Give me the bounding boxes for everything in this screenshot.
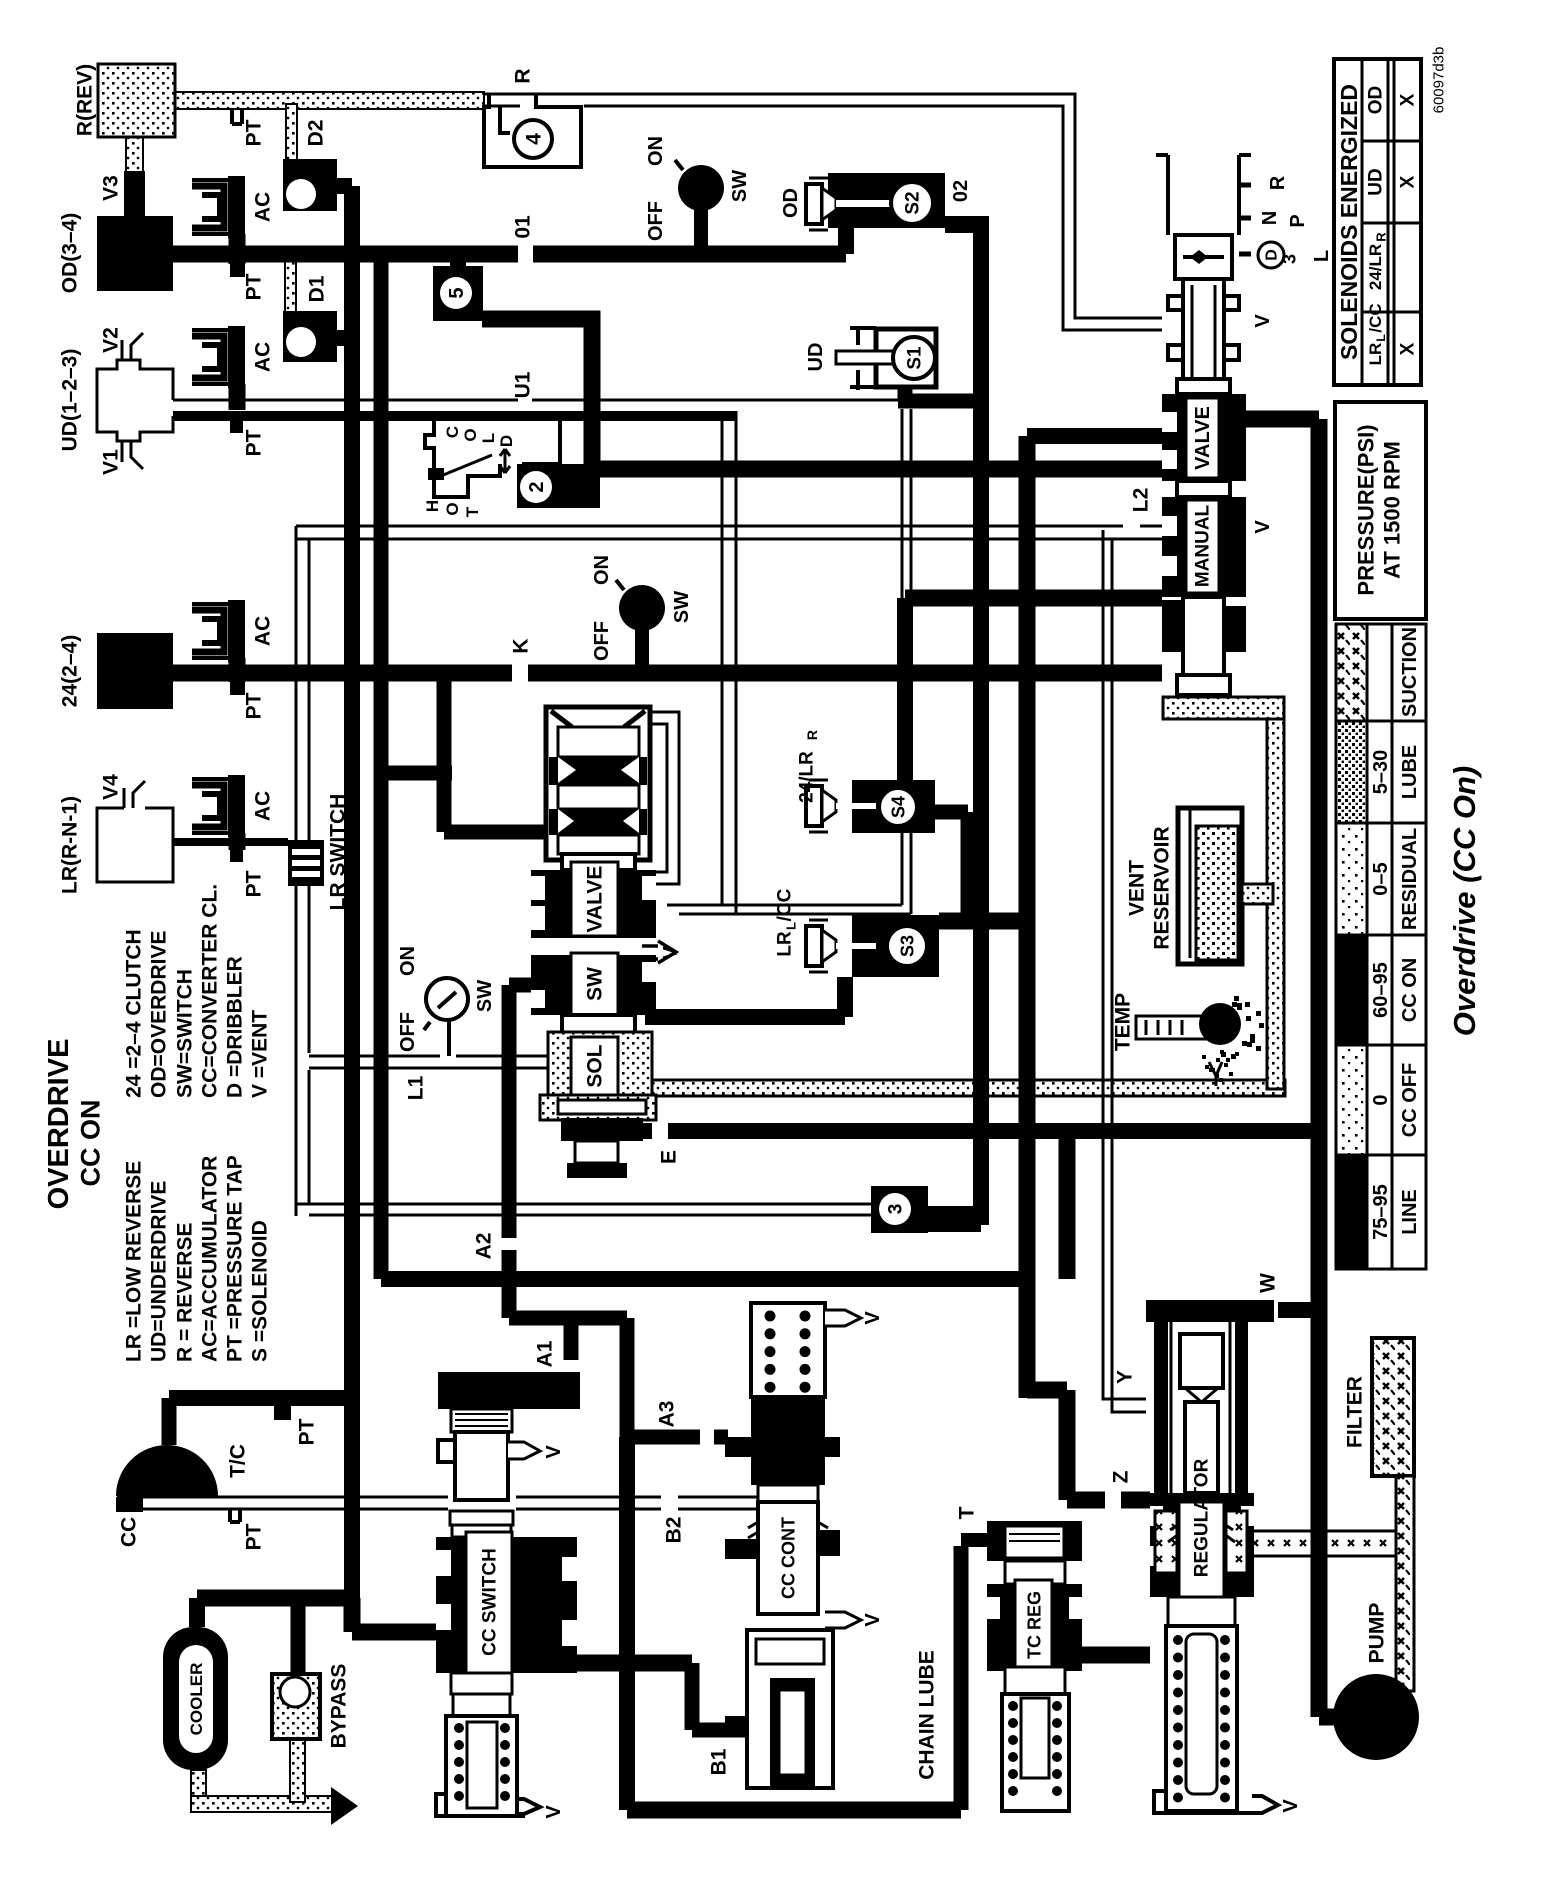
- svg-text:3: 3: [1279, 254, 1299, 264]
- wire CC switch stem: [635, 630, 649, 673]
- svg-text:SW: SW: [583, 967, 606, 1001]
- legend row CC OFF: [1336, 1045, 1367, 1155]
- wire TC REG to regulator line: [1082, 1647, 1150, 1664]
- pressure tap PT (T/C line): [274, 1406, 291, 1420]
- wire E line: [640, 1123, 1319, 1139]
- wire manual valve suction tray: [1163, 697, 1284, 719]
- wire hot/cold output line to manual valve: [600, 461, 1162, 478]
- wire regulator suction crosshatch pipe: [1232, 1531, 1405, 1556]
- wire OD switch stem: [694, 210, 708, 254]
- svg-text:U1: U1: [511, 371, 534, 398]
- svg-text:T: T: [463, 506, 482, 517]
- svg-text:CC=CONVERTER CL.: CC=CONVERTER CL.: [198, 884, 221, 1098]
- switch SW (L1, open): [447, 1020, 451, 1056]
- pressure tap PT (OD line): [230, 263, 245, 277]
- wire L1/valve3 riser (double thin): [296, 884, 309, 1216]
- wire Z line to regulator: [1027, 1390, 1150, 1500]
- svg-text:FILTER: FILTER: [1343, 1376, 1366, 1448]
- svg-text:UD: UD: [1366, 168, 1387, 195]
- reservoir outlet stem: [1242, 884, 1273, 904]
- wire LR switch riser (double thin): [296, 526, 309, 844]
- pressure tap PT (R line): [232, 109, 242, 124]
- wire L1 line (double thin): [309, 1056, 552, 1068]
- svg-text:R(REV): R(REV): [73, 64, 96, 136]
- pressure tap PT (CC line): [230, 1510, 240, 1522]
- svg-text:OD=OVERDRIVE: OD=OVERDRIVE: [147, 931, 170, 1098]
- clutch LR(R-N-1): [97, 808, 173, 882]
- svg-text:AC: AC: [251, 342, 274, 372]
- svg-text:SW: SW: [474, 980, 496, 1012]
- svg-text:A2: A2: [472, 1233, 495, 1260]
- filter: [1372, 1338, 1414, 1476]
- svg-text:L: L: [479, 433, 498, 443]
- svg-text:UD(1–2–3): UD(1–2–3): [58, 349, 81, 452]
- wire B trunk cross line: [381, 1271, 1027, 1287]
- wire trunk B: [374, 260, 389, 1279]
- svg-text:24 =2–4 CLUTCH: 24 =2–4 CLUTCH: [122, 929, 145, 1098]
- wire U1 line: [173, 399, 899, 402]
- svg-text:LINE: LINE: [1399, 1189, 1421, 1235]
- wire bypass riser: [291, 1606, 306, 1674]
- wire Y line (double thin riser): [1103, 530, 1146, 1399]
- drain arrow: [331, 1787, 358, 1825]
- wire pump to trunk elbow: [1319, 1709, 1345, 1726]
- svg-text:N: N: [1259, 211, 1281, 225]
- wire LR line to LR switch: [173, 838, 288, 846]
- svg-text:V1: V1: [99, 449, 122, 475]
- accumulator AC (OD line): [192, 176, 245, 238]
- svg-text:01: 01: [511, 215, 534, 239]
- valve CC SWITCH: [436, 1372, 580, 1819]
- wire valve top loop (thin): [640, 712, 679, 884]
- svg-text:3: 3: [886, 1204, 907, 1215]
- svg-text:CC OFF: CC OFF: [1399, 1063, 1421, 1137]
- thermometer TEMP: [1136, 1016, 1207, 1039]
- svg-text:ON: ON: [397, 946, 419, 976]
- vent V2: [122, 333, 143, 360]
- svg-text:AC=ACCUMULATOR: AC=ACCUMULATOR: [198, 1156, 221, 1362]
- svg-text:B2: B2: [662, 1517, 685, 1544]
- wire UD to L2 drop (double thin): [722, 411, 736, 914]
- vent V4: [124, 781, 145, 808]
- svg-text:CC CONT: CC CONT: [778, 1517, 798, 1599]
- svg-text:V: V: [1252, 314, 1274, 328]
- wire A2/A1 line: [509, 985, 571, 1390]
- check valve 2: [517, 464, 600, 508]
- svg-text:5–30: 5–30: [1370, 750, 1392, 795]
- dribbler D1: [283, 311, 337, 362]
- CC line left cap: [116, 1497, 143, 1512]
- pump: [1333, 1674, 1419, 1760]
- clutch 24(2-4): [97, 633, 173, 709]
- wire S3/S4 junction line: [939, 913, 1027, 930]
- svg-text:TEMP: TEMP: [1111, 993, 1134, 1051]
- svg-text:PRESSURE(PSI): PRESSURE(PSI): [1354, 424, 1379, 595]
- svg-text:Z: Z: [1109, 1470, 1132, 1483]
- svg-text:Y: Y: [1113, 1370, 1136, 1384]
- svg-text:T: T: [955, 1506, 978, 1519]
- svg-text:LR: LR: [1366, 343, 1385, 366]
- svg-text:/CC: /CC: [1366, 303, 1385, 332]
- svg-text:AC: AC: [251, 192, 274, 222]
- svg-text:D2: D2: [304, 120, 327, 147]
- check valve 5: [433, 266, 483, 321]
- svg-text:ON: ON: [645, 136, 667, 166]
- wire T/C line: [169, 1390, 352, 1406]
- svg-text:X: X: [1398, 342, 1419, 355]
- solenoid S4: [852, 780, 935, 833]
- wire E branch down: [1059, 1131, 1076, 1279]
- LR switch: [288, 840, 324, 886]
- svg-text:UD: UD: [805, 343, 827, 372]
- vent V1: [122, 441, 143, 469]
- legend row SUCTION: [1336, 624, 1367, 721]
- clutch R(REV): [98, 64, 175, 137]
- svg-text:H: H: [423, 500, 442, 512]
- clutch UD(1-2-3): [97, 360, 173, 441]
- svg-text:O: O: [461, 428, 480, 441]
- svg-text:SUCTION: SUCTION: [1399, 627, 1421, 717]
- svg-text:OD: OD: [1366, 86, 1387, 115]
- svg-text:CHAIN LUBE: CHAIN LUBE: [915, 1650, 938, 1780]
- svg-text:PT: PT: [242, 1523, 265, 1550]
- valve solenoid switch valve (SOL SW VALVE): [531, 707, 682, 1178]
- wire B1 line: [692, 1663, 747, 1730]
- wire S2 feed riser: [838, 215, 854, 254]
- wire reservoir right wall dotted: [1267, 717, 1284, 1089]
- svg-text:R: R: [511, 68, 534, 83]
- svg-text:5: 5: [446, 287, 468, 298]
- valve CC CONT with solenoid: [725, 1303, 884, 1788]
- svg-text:V: V: [1280, 1799, 1302, 1813]
- svg-text:0: 0: [1370, 1094, 1392, 1105]
- svg-text:V: V: [660, 946, 682, 960]
- svg-text:24/LR: 24/LR: [797, 751, 818, 803]
- svg-text:L2: L2: [1129, 488, 1152, 513]
- wire K drop to switch valve: [381, 673, 546, 832]
- dribbler D2: [283, 159, 337, 211]
- svg-text:S2: S2: [903, 191, 924, 214]
- wire manual valve to S4 line: [905, 590, 1162, 607]
- svg-text:LUBE: LUBE: [1399, 745, 1421, 799]
- svg-text:PT: PT: [242, 429, 265, 456]
- port V3: [124, 171, 145, 217]
- svg-text:ON: ON: [591, 555, 613, 585]
- svg-text:S1: S1: [905, 346, 926, 370]
- svg-text:V: V: [543, 1445, 565, 1459]
- solenoid S1: [876, 329, 936, 387]
- svg-text:OFF: OFF: [397, 1012, 419, 1052]
- pressure tap PT (UD line): [230, 420, 243, 433]
- svg-text:SOL: SOL: [583, 1044, 606, 1087]
- svg-text:LR: LR: [775, 931, 796, 957]
- svg-text:VENT: VENT: [1125, 860, 1148, 916]
- svg-text:PT: PT: [242, 119, 265, 146]
- table SOLENOIDS ENERGIZED: [1334, 59, 1421, 385]
- svg-text:PT: PT: [295, 1418, 318, 1445]
- svg-text:MANUAL: MANUAL: [1193, 504, 1214, 587]
- svg-text:K: K: [509, 638, 532, 653]
- switch SW (OD toggle): [678, 165, 724, 211]
- svg-text:R = REVERSE: R = REVERSE: [173, 1223, 196, 1362]
- svg-text:S =SOLENOID: S =SOLENOID: [248, 1220, 271, 1362]
- wire main line trunk (pump to manual valve): [1245, 419, 1319, 1717]
- wire to check valve 3 (double thin): [296, 1204, 872, 1215]
- wire TC REG side drop: [954, 1546, 969, 1810]
- wire trunk A (D2 output down): [344, 186, 360, 1598]
- svg-text:R: R: [1267, 175, 1289, 190]
- svg-text:D: D: [1264, 249, 1281, 261]
- svg-text:75–95: 75–95: [1370, 1184, 1392, 1240]
- svg-text:/CC: /CC: [775, 888, 796, 921]
- pressure tap PT (LR line): [230, 846, 243, 862]
- svg-text:P: P: [1287, 214, 1309, 227]
- legend row RESIDUAL: [1336, 823, 1367, 935]
- legend row CC ON: [1336, 935, 1367, 1045]
- vent reservoir cup: [1178, 808, 1242, 964]
- wire D1 output: [337, 330, 352, 346]
- svg-text:L: L: [1374, 334, 1388, 341]
- wire V3 dotted stub: [126, 135, 143, 173]
- svg-text:4: 4: [522, 133, 545, 145]
- svg-text:PT =PRESSURE TAP: PT =PRESSURE TAP: [223, 1155, 246, 1362]
- svg-text:TC REG: TC REG: [1024, 1591, 1044, 1659]
- svg-text:24/LR: 24/LR: [1366, 244, 1385, 290]
- svg-text:60–95: 60–95: [1370, 962, 1392, 1018]
- solenoid S2: [828, 173, 945, 228]
- svg-text:02: 02: [950, 180, 972, 202]
- svg-text:BYPASS: BYPASS: [327, 1664, 350, 1749]
- wire D1 dotted riser: [285, 257, 296, 312]
- wire bypass drain dotted: [290, 1739, 305, 1802]
- svg-text:V2: V2: [99, 327, 122, 353]
- svg-text:A1: A1: [533, 1340, 556, 1367]
- svg-text:V4: V4: [99, 774, 122, 800]
- temp spray dots: [1246, 1016, 1251, 1021]
- svg-text:PT: PT: [242, 273, 265, 300]
- svg-text:Overdrive (CC On): Overdrive (CC On): [1447, 766, 1482, 1036]
- wire A1 drop to bottom line: [619, 1437, 635, 1810]
- wire cooler/bypass feed line: [197, 1598, 446, 1632]
- wire manual valve upper port line: [1027, 428, 1162, 444]
- pressure tap PT (24 line): [230, 681, 245, 695]
- svg-text:V: V: [543, 1805, 565, 1819]
- svg-text:24(2–4): 24(2–4): [58, 635, 81, 707]
- svg-text:LR(R-N-1): LR(R-N-1): [58, 796, 81, 894]
- wire trunk D (S2/S1 down to E line): [973, 218, 989, 1225]
- svg-text:SW: SW: [729, 170, 751, 202]
- svg-text:R: R: [804, 730, 820, 740]
- valve REGULATOR: [1146, 1300, 1302, 1813]
- wire OD clutch main line 01: [173, 246, 846, 263]
- svg-text:OVERDRIVE: OVERDRIVE: [43, 1039, 75, 1210]
- svg-text:LR SWITCH: LR SWITCH: [326, 794, 349, 911]
- svg-text:REGULATOR: REGULATOR: [1192, 1458, 1213, 1577]
- wire D2 dotted riser: [286, 104, 297, 160]
- bypass valve: [272, 1674, 320, 1739]
- manual valve assembly: [1156, 155, 1333, 695]
- svg-text:S4: S4: [888, 796, 908, 818]
- svg-text:X: X: [1398, 93, 1419, 106]
- svg-text:R: R: [1374, 232, 1389, 242]
- wire S1 output: [898, 387, 981, 401]
- wire trunk C (manual valve to Z elbow): [1019, 436, 1036, 1398]
- svg-text:V3: V3: [99, 175, 122, 201]
- clutch OD(3-4): [97, 216, 173, 291]
- svg-text:A3: A3: [655, 1401, 678, 1428]
- valve TC REG: [987, 1521, 1082, 1811]
- svg-text:OD(3–4): OD(3–4): [58, 213, 81, 294]
- solenoid S3: [852, 915, 939, 977]
- svg-text:T/C: T/C: [226, 1444, 249, 1478]
- svg-text:D =DRIBBLER: D =DRIBBLER: [223, 956, 246, 1098]
- svg-text:D1: D1: [305, 275, 328, 302]
- svg-text:VALVE: VALVE: [1192, 406, 1214, 470]
- svg-text:B1: B1: [707, 1748, 730, 1775]
- svg-text:X: X: [1398, 175, 1419, 188]
- svg-text:V: V: [862, 1311, 884, 1325]
- accumulator AC (UD line): [192, 326, 245, 388]
- cooler: [163, 1627, 228, 1770]
- wire suction dotted line from R(REV): [173, 92, 484, 109]
- svg-text:V: V: [1252, 520, 1274, 534]
- svg-text:2: 2: [526, 481, 548, 492]
- wire 24 clutch line K: [173, 665, 1162, 682]
- svg-text:L: L: [784, 922, 799, 930]
- thermal element HOT/COLD: [425, 413, 560, 497]
- wire L2 line (double thin): [296, 525, 1162, 528]
- svg-text:CC ON: CC ON: [75, 1100, 105, 1187]
- wire check valve 3 output: [925, 1206, 981, 1232]
- wire check valve 5 stubs: [450, 262, 466, 268]
- svg-text:PUMP: PUMP: [1365, 1603, 1388, 1664]
- wire CC / B2 line (double thin): [117, 1496, 757, 1499]
- svg-text:SW: SW: [671, 591, 693, 623]
- svg-text:LR =LOW REVERSE: LR =LOW REVERSE: [122, 1161, 145, 1362]
- svg-text:RESIDUAL: RESIDUAL: [1399, 828, 1421, 930]
- wire CC switch output line: [512, 1655, 692, 1672]
- svg-text:OFF: OFF: [591, 621, 613, 661]
- check valve 3: [871, 1186, 928, 1233]
- svg-text:CC ON: CC ON: [1399, 958, 1421, 1022]
- svg-text:60097d3b: 60097d3b: [1430, 47, 1447, 114]
- legend row LINE: [1336, 1155, 1367, 1269]
- accumulator AC (LR line): [192, 775, 245, 837]
- wire reservoir bottom suction line: [640, 1080, 1285, 1096]
- svg-text:L: L: [1311, 250, 1333, 262]
- wire LR/CC line to S3: [645, 977, 845, 1017]
- svg-text:UD=UNDERDRIVE: UD=UNDERDRIVE: [147, 1181, 170, 1362]
- wire T port elbow: [961, 1533, 989, 1547]
- wire R line (double thin): [484, 94, 1162, 318]
- svg-text:SOLENOIDS ENERGIZED: SOLENOIDS ENERGIZED: [1336, 84, 1362, 360]
- svg-text:AT 1500 RPM: AT 1500 RPM: [1380, 441, 1405, 579]
- wire D2 output: [337, 178, 352, 194]
- wire UD clutch line: [173, 411, 737, 421]
- svg-text:OD: OD: [780, 188, 802, 218]
- svg-text:D: D: [497, 435, 516, 447]
- svg-text:RESERVOIR: RESERVOIR: [1150, 826, 1173, 949]
- svg-text:0–5: 0–5: [1370, 862, 1392, 895]
- svg-text:V: V: [862, 1613, 884, 1627]
- svg-text:COOLER: COOLER: [187, 1663, 206, 1736]
- svg-text:W: W: [1256, 1273, 1279, 1293]
- svg-text:L1: L1: [404, 1075, 427, 1100]
- svg-text:S3: S3: [897, 935, 917, 957]
- check valve 4: [484, 94, 581, 167]
- switch SW (CC on K line): [619, 585, 665, 631]
- wire bottom lube line: [627, 1802, 961, 1819]
- svg-text:E: E: [657, 1150, 680, 1164]
- legend row LUBE: [1336, 721, 1367, 823]
- svg-text:PT: PT: [242, 870, 265, 897]
- svg-text:AC: AC: [251, 616, 274, 646]
- svg-text:AC: AC: [251, 791, 274, 821]
- accumulator AC (24 line): [192, 600, 245, 662]
- svg-text:CC: CC: [117, 1517, 140, 1547]
- table PRESSURE(PSI) AT 1500 RPM: [1335, 402, 1426, 619]
- svg-text:VALVE: VALVE: [583, 866, 606, 933]
- svg-text:CC SWITCH: CC SWITCH: [480, 1548, 501, 1656]
- svg-text:OFF: OFF: [645, 201, 667, 241]
- wire S4 output: [935, 812, 968, 921]
- svg-text:PT: PT: [242, 692, 265, 719]
- svg-text:SW=SWITCH: SW=SWITCH: [173, 969, 196, 1098]
- svg-text:V =VENT: V =VENT: [248, 1010, 271, 1098]
- wire cooler drain dotted: [191, 1770, 206, 1804]
- svg-text:C: C: [443, 426, 462, 438]
- wire A3 line: [571, 1318, 728, 1437]
- wire W line: [1255, 1302, 1319, 1318]
- torque converter T/C: [116, 1445, 218, 1496]
- svg-text:O: O: [443, 502, 462, 515]
